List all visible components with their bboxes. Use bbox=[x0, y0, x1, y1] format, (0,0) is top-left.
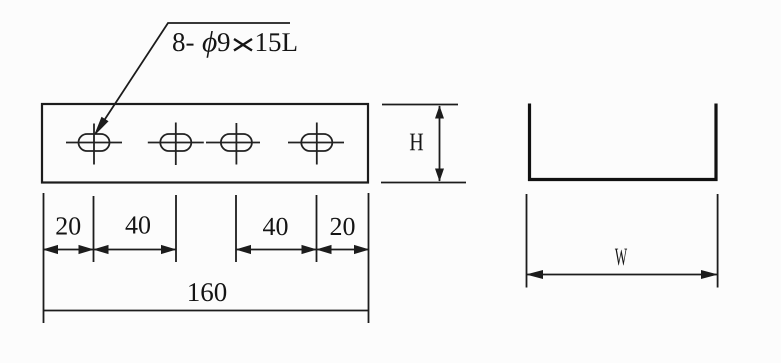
W arrow right bbox=[701, 270, 718, 279]
arrow left at 43.5 bbox=[43, 245, 59, 254]
centerline slot 4 bbox=[288, 123, 344, 165]
arrow left at 316.5 bbox=[316, 245, 332, 254]
channel section web (bottom) bbox=[528, 178, 718, 181]
dimension line 40/20 right segment bbox=[236, 249, 369, 251]
label 40 right bbox=[263, 218, 288, 236]
channel section right flange bbox=[714, 104, 717, 182]
dimension line 160 bbox=[44, 310, 369, 312]
dimension line 20/40 left segment bbox=[44, 249, 177, 251]
H arrow up bbox=[435, 106, 444, 119]
plate outline (front view) bbox=[42, 104, 368, 183]
label 20 right bbox=[331, 218, 355, 236]
hole label 8-phi9x15L bbox=[173, 31, 296, 58]
leader line to slot 1 bbox=[95, 23, 290, 134]
W dimension line bbox=[527, 274, 718, 276]
H dimension line bbox=[439, 106, 441, 181]
centerline slot 2 bbox=[148, 123, 204, 166]
leader arrowhead bbox=[95, 118, 107, 134]
slot hole 1 bbox=[79, 134, 110, 151]
arrow right at 93.5 bbox=[79, 245, 95, 254]
slot hole 3 bbox=[221, 134, 252, 151]
label 40 left bbox=[126, 216, 150, 234]
H top extension line bbox=[382, 104, 458, 106]
extension line slot3 bbox=[235, 195, 237, 262]
arrow right at 368.5 bbox=[354, 245, 370, 254]
extension line slot4 bbox=[316, 195, 318, 262]
H bottom extension line bbox=[381, 182, 466, 184]
W right extension line bbox=[717, 194, 719, 288]
arrow right at 176 bbox=[161, 245, 177, 254]
label W bbox=[615, 249, 627, 266]
label 20 left bbox=[56, 217, 80, 235]
slot hole 4 bbox=[301, 134, 332, 151]
extension line left edge (long) bbox=[43, 193, 45, 323]
W arrow left bbox=[526, 270, 543, 279]
W left extension line bbox=[526, 194, 528, 288]
arrow right at 316.5 bbox=[302, 245, 318, 254]
extension line right edge (long) bbox=[368, 193, 370, 323]
arrow left at 236 bbox=[236, 245, 252, 254]
extension line slot2 bbox=[175, 195, 177, 262]
centerline slot 3 bbox=[206, 123, 260, 165]
arrow left at 93.5 bbox=[93, 245, 109, 254]
label H bbox=[410, 134, 423, 151]
extension line slot1 bbox=[93, 196, 95, 262]
label 160 bbox=[189, 283, 226, 301]
centerline slot 1 bbox=[66, 124, 122, 165]
H arrow down bbox=[435, 169, 444, 182]
channel section left flange bbox=[528, 104, 531, 182]
slot hole 2 bbox=[160, 134, 191, 151]
